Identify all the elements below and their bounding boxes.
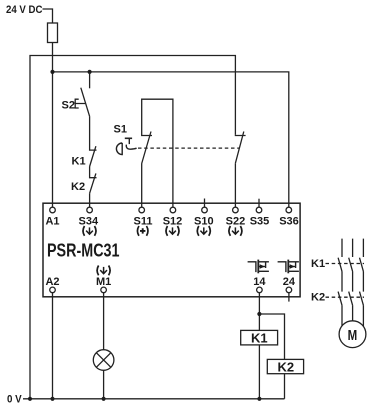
svg-text:S12: S12	[163, 215, 183, 227]
wire A2 to 0V rail	[52, 293, 54, 399]
wire S2 to contact K1, K1 seat	[90, 116, 97, 150]
switch S2 (NO reset button) blade	[81, 88, 90, 117]
svg-text:K2: K2	[311, 292, 325, 304]
svg-text:K2: K2	[278, 360, 295, 375]
svg-text:24 V DC: 24 V DC	[6, 4, 43, 16]
terminal S11	[139, 207, 145, 213]
svg-text:S34: S34	[79, 215, 99, 227]
svg-text:K1: K1	[72, 156, 86, 168]
svg-text:24: 24	[283, 276, 296, 288]
junction 24V/S2 branch	[88, 70, 92, 74]
svg-text:S36: S36	[279, 215, 299, 227]
wire K1 to contact K2, K2 seat	[90, 167, 97, 178]
wire 14 to coil K1	[258, 293, 260, 331]
terminal 14	[257, 287, 263, 293]
stub terminal S35	[258, 199, 260, 208]
junction K1/0V	[257, 397, 261, 401]
svg-text:K1: K1	[251, 331, 268, 346]
wire M1 to lamp	[103, 293, 105, 350]
wire K2 to terminal S34	[89, 193, 91, 207]
S1 mechanical linkage dashed line	[138, 147, 239, 149]
switch S2 actuator	[75, 99, 85, 108]
junction A2/0V	[50, 397, 54, 401]
svg-text:S1: S1	[114, 123, 127, 135]
wire branch to coil K2	[259, 314, 284, 359]
junction frame/0V	[28, 397, 32, 401]
svg-text:PSR-MC31: PSR-MC31	[47, 241, 120, 261]
module PSR-MC31 box	[43, 203, 300, 297]
svg-text:S22: S22	[226, 215, 246, 227]
contactor K1 main contacts (3x NO)	[338, 258, 363, 272]
semiconductor output symbol for 24	[278, 260, 299, 274]
wire 24V rail to S36	[53, 72, 289, 207]
pin labels top row	[45, 215, 298, 227]
wire coil K1 to 0V rail	[258, 345, 260, 399]
wire lamp to 0V rail	[103, 370, 105, 399]
S1 e-stop mushroom actuator	[116, 143, 122, 155]
svg-text:A2: A2	[45, 276, 59, 288]
terminal S12	[170, 207, 176, 213]
terminal S34	[87, 207, 93, 213]
svg-text:S10: S10	[194, 215, 214, 227]
wire S2 branch upper	[89, 72, 91, 88]
three-phase supply stubs	[342, 239, 363, 257]
contact K1 (NC feedback) blade	[90, 146, 96, 166]
terminal S35	[256, 207, 262, 213]
S1 actuator linkage	[126, 145, 136, 150]
terminal 24	[286, 287, 292, 293]
S1 actuator T mark	[125, 137, 132, 139]
svg-text:M1: M1	[96, 276, 111, 288]
contactor K2 main contacts (3x NO)	[338, 292, 363, 306]
junction lamp/0V	[102, 397, 106, 401]
K1 linkage dashed	[326, 263, 365, 265]
svg-text:14: 14	[253, 276, 266, 288]
pin function marks (arrows) top row	[83, 226, 96, 236]
semiconductor output symbol for 14	[248, 260, 269, 274]
wire fuse down to terminal A1	[52, 43, 54, 208]
wire 24V label to fuse	[43, 9, 53, 23]
terminal M1	[101, 287, 107, 293]
svg-text:0 V: 0 V	[7, 394, 22, 406]
junction 14/K2-branch	[257, 312, 261, 316]
svg-text:M: M	[348, 328, 358, 344]
pin function mark above M1	[97, 266, 110, 276]
wire S12 loop to S1 pole 1, pole 1 seat	[142, 99, 173, 207]
svg-text:A1: A1	[45, 215, 59, 227]
terminal S36	[286, 207, 292, 213]
junction 24V/A1	[50, 70, 54, 74]
terminal S10	[202, 207, 208, 213]
terminal A1	[50, 207, 56, 213]
terminal A2	[50, 287, 56, 293]
wire coil K2 back to 0V rail	[284, 374, 286, 399]
K2 linkage dashed	[326, 296, 365, 298]
wire S1 pole 1 to terminal S11	[141, 164, 143, 208]
contact K2 (NC feedback) blade	[90, 173, 96, 193]
coil K2 box	[267, 359, 303, 373]
coil K1 box	[241, 330, 278, 345]
svg-text:S35: S35	[250, 215, 270, 227]
motor M	[339, 321, 366, 348]
wire outer frame: 0V left riser, top branch to S1 pole 2	[30, 56, 235, 399]
stub terminal S10	[204, 199, 206, 208]
switch S1 pole 2 blade	[235, 132, 243, 164]
lamp P1	[93, 350, 114, 371]
phase wires K2 to motor	[342, 305, 363, 326]
switch S1 pole 2 (NC) seat	[235, 134, 245, 137]
svg-text:S2: S2	[62, 99, 75, 111]
stub terminal 24	[288, 293, 290, 302]
terminal S22	[233, 207, 239, 213]
svg-text:K2: K2	[71, 181, 85, 193]
0V rail	[23, 398, 285, 400]
switch S1 pole 1 (NC) blade	[142, 132, 151, 164]
wire S1 pole 2 to terminal S22	[234, 163, 236, 207]
phase wires K1 to K2	[342, 271, 363, 291]
svg-text:K1: K1	[311, 258, 325, 270]
svg-text:S11: S11	[134, 215, 153, 227]
fuse F1	[48, 23, 58, 43]
pin labels bottom row	[45, 276, 295, 288]
